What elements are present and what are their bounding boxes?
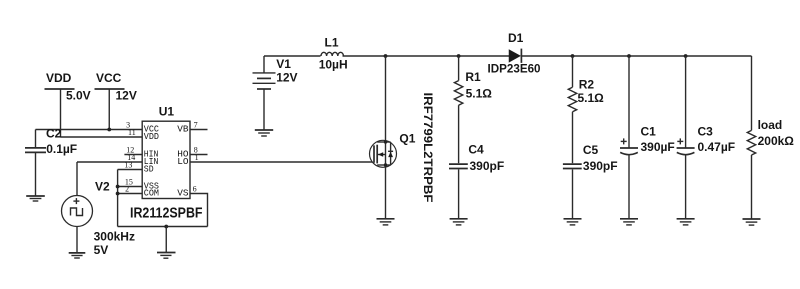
capacitor C1 polarized [620,56,675,219]
svg-text:D1: D1 [508,31,524,45]
power flag VDD [45,71,91,137]
wire LIN to V2 [77,162,142,196]
ground (V1) [255,130,273,136]
svg-text:VS: VS [177,188,189,199]
svg-text:C1: C1 [641,125,657,139]
svg-text:IRF7799L2TRPBF: IRF7799L2TRPBF [421,93,435,203]
junction C1 top [627,54,631,58]
svg-text:390pF: 390pF [470,159,505,173]
svg-text:load: load [758,118,783,132]
pin number 12 [126,145,134,154]
pin number 15 [125,177,133,186]
ground (C4) [450,219,468,225]
svg-text:IDP23E60: IDP23E60 [488,62,541,76]
wire VB stub [190,129,208,131]
wire LO to Q1 gate [190,161,374,163]
ground (Q1) [377,219,395,225]
svg-text:Q1: Q1 [399,131,415,145]
pin number 3 [126,120,130,129]
svg-text:V2: V2 [95,180,110,194]
svg-text:VDD: VDD [46,71,72,85]
ground (C1) [620,219,638,225]
svg-text:L1: L1 [325,36,339,50]
svg-text:5V: 5V [94,243,109,257]
svg-text:12V: 12V [276,71,297,85]
diode D1 [488,31,541,76]
svg-text:V1: V1 [276,57,291,71]
svg-text:C2: C2 [46,126,62,140]
svg-text:C5: C5 [583,143,599,157]
pin names U1 [144,124,189,199]
junction ground wire [164,225,168,229]
pin number 8 [194,145,198,154]
wire top rail left (V1 to D1) [264,55,509,57]
svg-text:6: 6 [193,184,197,193]
wire SD stub [118,169,143,171]
pin number 1 [195,153,199,162]
wire VDD rail to pin 11 [61,136,143,138]
junction VSS [116,185,120,189]
svg-text:0.1µF: 0.1µF [46,142,77,156]
svg-text:VB: VB [177,124,189,135]
svg-text:11: 11 [128,128,136,137]
wire COM stub [118,193,143,195]
pin number 6 [193,184,197,193]
svg-text:5.1Ω: 5.1Ω [578,91,605,105]
junction VCC rail [107,128,111,132]
svg-text:COM: COM [144,188,159,199]
svg-text:VDD: VDD [144,131,159,142]
wire U1 ground bottom [118,226,208,228]
power flag VCC [95,71,137,130]
ground (C5) [564,219,582,225]
svg-text:C3: C3 [698,125,714,139]
svg-text:5.0V: 5.0V [66,89,91,103]
svg-text:R1: R1 [465,70,481,84]
svg-text:12V: 12V [116,89,137,103]
pin number 13 [124,160,132,169]
capacitor C2 [25,126,77,196]
wire VS to ground wire [190,194,208,227]
svg-text:390µF: 390µF [641,140,675,154]
svg-text:0.47µF: 0.47µF [698,140,736,154]
wire HIN stub [124,154,142,156]
svg-text:U1: U1 [159,104,175,118]
inductor L1 [319,36,348,72]
wire HO stub [190,154,208,156]
ground (U1) [157,227,176,259]
pin number 2 [125,184,129,193]
wire VCC rail to pin 3 [36,129,143,131]
resistor R1 [454,56,492,163]
capacitor C5 [563,143,618,219]
svg-text:LO: LO [177,156,189,167]
ground (V2) [69,253,86,258]
resistor R2 [568,56,604,163]
capacitor C3 polarized [677,56,736,219]
ground (C3) [677,219,695,225]
svg-text:7: 7 [194,120,198,129]
svg-text:IR2112SPBF: IR2112SPBF [130,204,203,221]
svg-text:2: 2 [125,184,129,193]
op-amp U1 IR2112SPBF body [130,104,203,221]
svg-text:SD: SD [144,164,154,175]
svg-text:200kΩ: 200kΩ [758,134,795,148]
ground (load) [743,219,761,225]
resistor load [747,56,794,219]
svg-text:10µH: 10µH [319,57,348,71]
capacitor C4 [449,143,504,219]
junction R2 top [571,54,575,58]
junction C3 top [684,54,688,58]
junction Q1 drain [384,54,388,58]
voltage source V1 battery [253,56,298,130]
svg-text:R2: R2 [579,77,595,91]
wire SD/VSS/COM vertical [117,170,119,227]
svg-text:VCC: VCC [96,71,122,85]
junction COM [116,192,120,196]
svg-text:390pF: 390pF [583,159,618,173]
pin number 14 [127,153,135,162]
pin number 11 [128,128,136,137]
ground (C2) [26,196,45,201]
junction R1 top [457,54,461,58]
svg-text:C4: C4 [468,143,484,157]
voltage source V2 pulse [62,180,135,258]
transistor Q1 MOSFET [370,56,436,219]
wire top rail right (D1 to load) [521,55,751,57]
svg-text:5.1Ω: 5.1Ω [466,86,493,100]
pin number 7 [194,120,198,129]
svg-text:300kHz: 300kHz [94,229,135,243]
wire VSS stub [118,186,143,188]
